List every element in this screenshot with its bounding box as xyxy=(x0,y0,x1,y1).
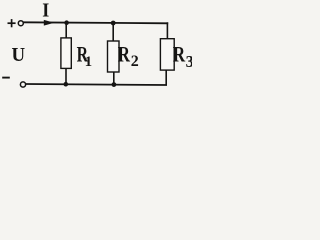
wire: R2 top stub xyxy=(112,23,114,41)
node: junction dot top of R2 xyxy=(111,21,116,26)
minus sign (− terminal polarity mark) xyxy=(2,77,10,79)
svg-text:R: R xyxy=(173,41,186,66)
wire: R1 top stub xyxy=(65,23,67,38)
wire: R1 bottom stub xyxy=(65,68,67,84)
wire: top horizontal xyxy=(23,22,168,23)
node: junction dot bottom of R1 xyxy=(64,82,69,87)
svg-text:R: R xyxy=(118,41,131,66)
resistor R1 xyxy=(61,38,71,69)
wire: R3 bottom stub xyxy=(165,70,167,85)
svg-text:I: I xyxy=(42,0,49,22)
current direction arrow xyxy=(44,20,55,26)
resistor R3 xyxy=(160,39,174,70)
resistor R2 xyxy=(108,41,120,72)
terminal circle (negative) xyxy=(20,82,25,87)
wire: right vertical drop to R3 xyxy=(166,22,168,39)
node: junction dot top of R1 xyxy=(64,20,69,25)
terminal circle (positive) xyxy=(18,21,23,26)
node: junction dot bottom of R2 xyxy=(112,82,117,87)
svg-text:U: U xyxy=(12,44,26,66)
plus sign (+ terminal polarity mark) xyxy=(8,19,16,27)
wire: bottom horizontal xyxy=(26,84,167,85)
svg-text:2: 2 xyxy=(131,53,139,70)
svg-text:3: 3 xyxy=(186,52,192,71)
wire: R2 bottom stub xyxy=(113,72,115,85)
svg-text:1: 1 xyxy=(85,54,93,70)
